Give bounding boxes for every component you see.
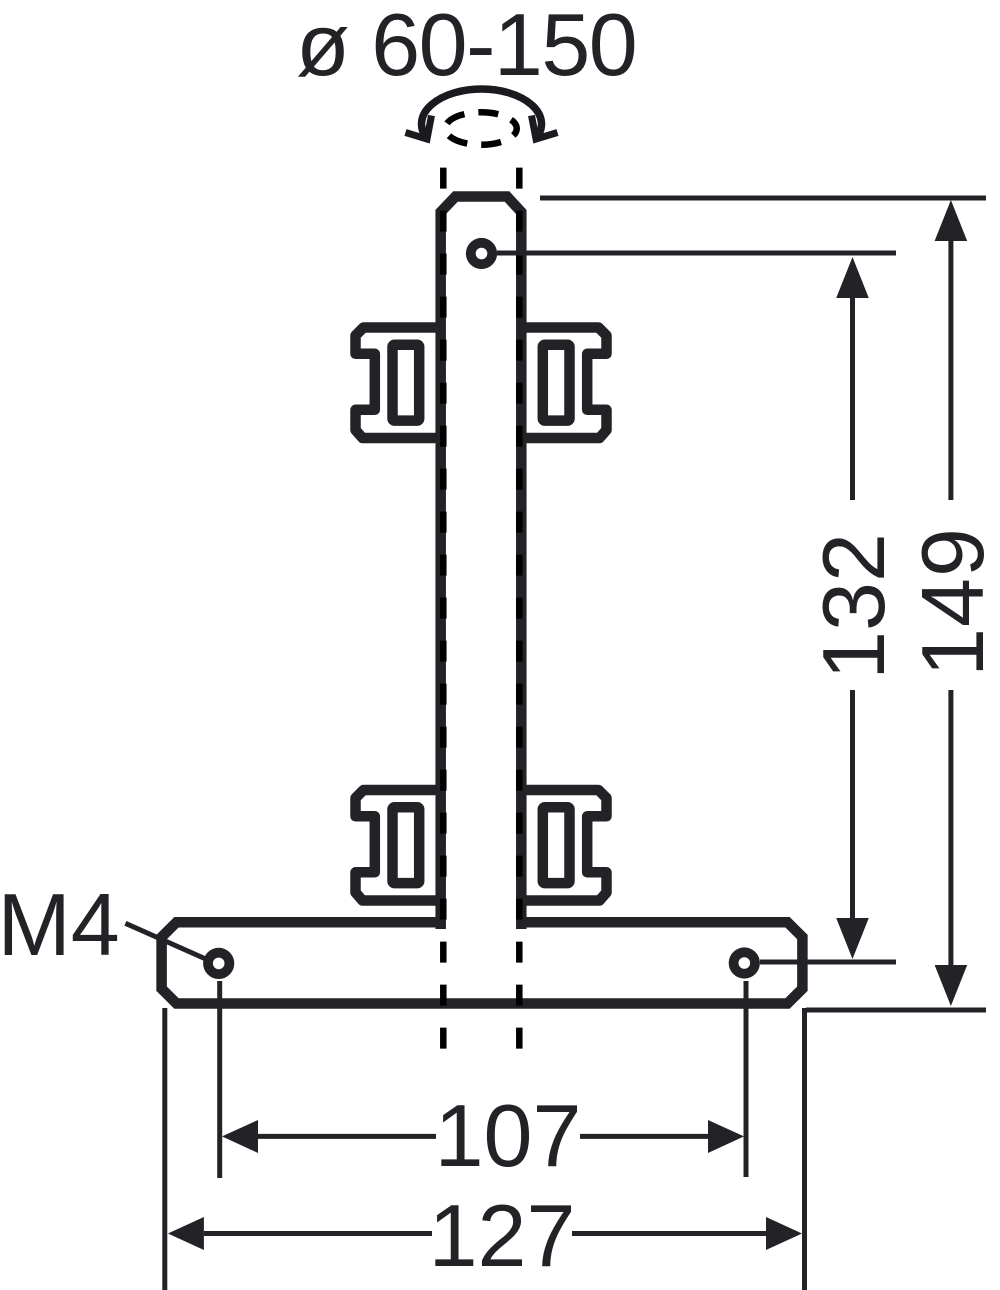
extension line 127 left [162, 1008, 167, 1290]
rotation arrowhead right [532, 116, 558, 140]
extension line base bottom [806, 1008, 986, 1013]
extension line 107 right [744, 981, 749, 1177]
dashed tube line left [440, 146, 447, 1050]
dimension 127 line [168, 1217, 802, 1250]
base plate outline [162, 922, 803, 1003]
dimension 132 line [836, 257, 869, 959]
dimension 107 line [222, 1120, 744, 1153]
hole base left [203, 948, 234, 979]
rotation arrowhead left [406, 116, 432, 140]
hole base right [729, 947, 760, 978]
extension line 107 left [217, 981, 222, 1178]
svg-text:M4: M4 [0, 875, 120, 974]
hole top (column) [466, 238, 497, 269]
clip upper-left [356, 328, 442, 439]
extension line column top [540, 196, 986, 201]
svg-text:ø 60-150: ø 60-150 [296, 0, 636, 94]
svg-text:107: 107 [435, 1086, 582, 1185]
svg-text:132: 132 [804, 533, 903, 680]
dashed tube line right [516, 146, 523, 1050]
clip lower-left [356, 790, 442, 901]
rotation symbol arc [422, 89, 542, 138]
svg-text:127: 127 [429, 1186, 576, 1285]
leader M4 [125, 923, 206, 959]
extension line 127 right [802, 1008, 807, 1290]
svg-text:149: 149 [903, 527, 1000, 677]
dashed tube top ellipse [445, 112, 517, 145]
extension line top hole [497, 251, 896, 256]
column outline [441, 197, 522, 930]
dimension 149 line [935, 200, 968, 1006]
extension line base hole row [760, 960, 896, 965]
clip upper-right [521, 328, 607, 439]
clip lower-right [521, 790, 607, 901]
